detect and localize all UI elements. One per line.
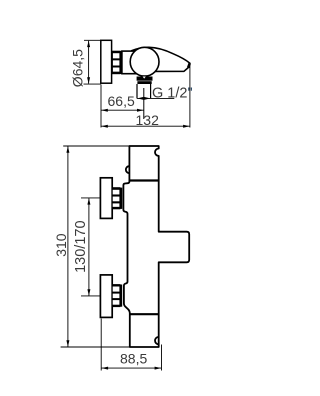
- svg-text:66,5: 66,5: [108, 93, 135, 109]
- label G 1/2": [152, 85, 193, 101]
- top knob ribs: [112, 188, 120, 209]
- label 88,5: [120, 351, 147, 367]
- thick flange bar at body left: [120, 51, 122, 74]
- svg-text:88,5: 88,5: [120, 351, 147, 367]
- svg-text:G 1/2": G 1/2": [152, 85, 193, 101]
- internal line top section: [129, 179, 158, 181]
- internal line bottom section: [130, 313, 159, 315]
- dimension 88,5 extension lines: [101, 319, 161, 371]
- G 1/2" callout leader with arrows: [137, 97, 174, 100]
- svg-text:130/170: 130/170: [73, 220, 89, 272]
- dimension 66,5 line with arrows: [101, 109, 144, 112]
- outlet nut (black band under knob): [137, 77, 153, 85]
- valve body (behind knob): [122, 51, 140, 74]
- knob circle (side view): [130, 47, 159, 76]
- svg-text:Ø64,5: Ø64,5: [69, 49, 85, 87]
- left extension line below escutcheon: [100, 85, 102, 128]
- top knob (diverter handle): [100, 178, 112, 219]
- top knob flange bar: [120, 188, 122, 209]
- pipe center line: [143, 88, 145, 119]
- label 66,5: [108, 93, 135, 109]
- dimension 310 line with arrows: [66, 146, 69, 347]
- dimension 130/170 line with arrows: [87, 198, 90, 296]
- lever handle (spout): [132, 47, 190, 71]
- dimension Ø64,5 line with arrows: [87, 41, 90, 84]
- dimension 310 extension lines: [61, 146, 130, 347]
- svg-text:310: 310: [53, 233, 69, 257]
- label 310 (rotated): [53, 233, 69, 257]
- label 132: [136, 112, 160, 128]
- svg-text:132: 132: [136, 112, 160, 128]
- dimension 88,5 line with arrows: [101, 367, 161, 370]
- dimension 132 line with arrows: [101, 125, 190, 128]
- bottom knob ribs: [112, 285, 120, 307]
- small bump on right edge near bottom: [155, 337, 159, 344]
- outlet pipe G1/2: [137, 84, 151, 98]
- small bump on left edge of top section: [126, 166, 130, 173]
- ribbed connector between escutcheon and body: [112, 51, 120, 73]
- mixer body outline: [123, 146, 189, 347]
- escutcheon wall plate (side view): [101, 40, 112, 83]
- bottom knob (temperature handle): [100, 275, 112, 318]
- dimension 130/170 extension lines: [81, 198, 100, 296]
- label Ø64,5 (rotated): [69, 49, 85, 87]
- label 130/170 (rotated): [73, 220, 89, 272]
- bottom knob flange bar: [120, 285, 122, 307]
- dimension Ø64,5 extension lines: [84, 40, 101, 84]
- right extension line from spout tip: [189, 65, 191, 128]
